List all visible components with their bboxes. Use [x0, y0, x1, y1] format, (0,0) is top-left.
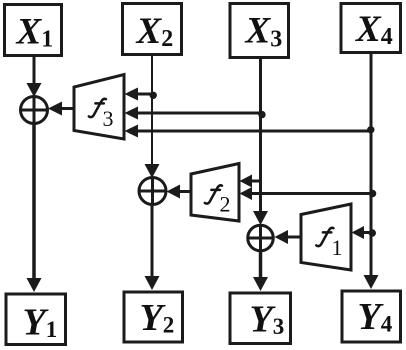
svg-text:3: 3	[103, 106, 114, 131]
svg-text:2: 2	[220, 192, 231, 217]
svg-text:1: 1	[332, 235, 343, 260]
